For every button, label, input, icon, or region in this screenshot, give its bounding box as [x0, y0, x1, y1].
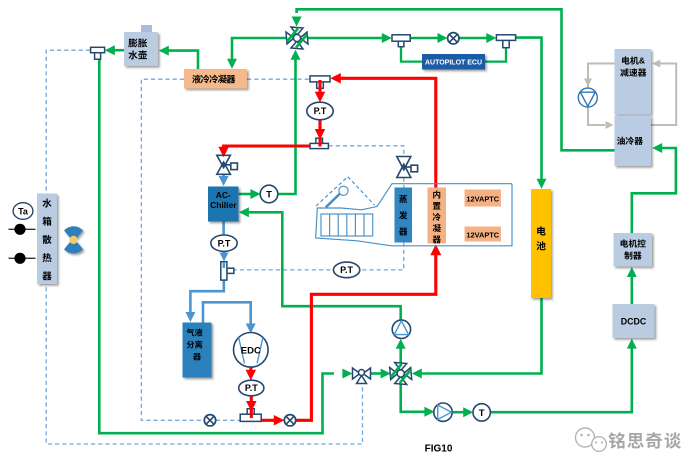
svg-text:DCDC: DCDC: [621, 317, 647, 327]
svg-text:12VAPTC: 12VAPTC: [466, 195, 499, 204]
svg-text:T: T: [266, 189, 272, 200]
svg-text:EDC: EDC: [241, 345, 261, 356]
svg-text:Ta: Ta: [18, 206, 29, 216]
svg-text:P.T: P.T: [314, 106, 327, 116]
svg-text:AUTOPILOT ECU: AUTOPILOT ECU: [425, 60, 482, 67]
svg-text:FIG10: FIG10: [425, 444, 453, 455]
svg-text:12VAPTC: 12VAPTC: [466, 231, 499, 240]
svg-text:T: T: [479, 408, 485, 419]
svg-text:&: &: [639, 56, 645, 66]
svg-text:P.T: P.T: [340, 265, 353, 275]
svg-text:P.T: P.T: [245, 383, 258, 393]
svg-text:Chiller: Chiller: [210, 200, 237, 210]
svg-text:AC-: AC-: [216, 190, 231, 200]
svg-text:P.T: P.T: [218, 238, 231, 248]
